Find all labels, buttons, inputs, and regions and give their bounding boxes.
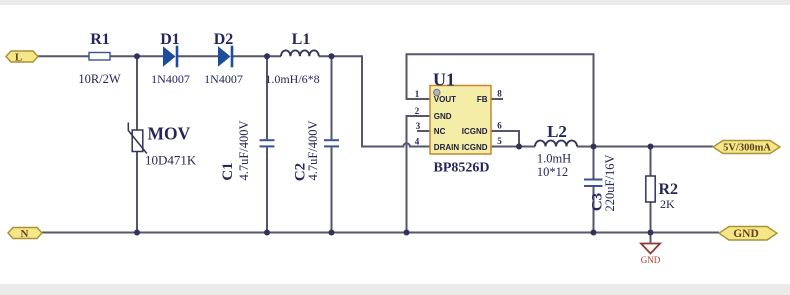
svg-text:BP8526D: BP8526D [434,161,490,176]
svg-text:VOUT: VOUT [434,95,456,104]
svg-text:10D471K: 10D471K [145,153,197,168]
svg-text:1.0mH: 1.0mH [537,152,571,166]
svg-text:L2: L2 [547,122,567,141]
svg-text:U1: U1 [433,70,455,90]
svg-text:MOV: MOV [148,124,191,144]
resistor R1 [78,31,121,86]
svg-text:8: 8 [497,89,502,99]
wire pin6 ICGND [491,131,519,147]
svg-text:1.0mH/6*8: 1.0mH/6*8 [265,72,319,86]
wire C1 branch [266,56,268,232]
svg-text:GND: GND [733,228,759,240]
inductor L2 [535,122,577,179]
wire C2 branch [331,56,333,232]
svg-text:GND: GND [434,112,452,121]
svg-text:DRAIN: DRAIN [434,143,460,152]
capacitor C1 [220,120,275,180]
capacitor C3 [584,155,617,212]
svg-text:6: 6 [497,121,502,131]
svg-text:R2: R2 [659,181,679,198]
svg-text:R1: R1 [90,31,110,48]
svg-text:ICGND: ICGND [462,127,488,136]
wire R2 branch [650,147,652,243]
svg-text:D2: D2 [214,31,234,48]
svg-text:3: 3 [416,121,421,131]
svg-text:5: 5 [497,136,502,146]
wire pin5 ICGND to L2 [491,146,535,148]
wire L2 to output flag [577,146,713,148]
svg-text:10*12: 10*12 [537,165,568,179]
connector flag L [6,51,38,64]
svg-text:1N4007: 1N4007 [151,72,190,86]
svg-text:L1: L1 [292,31,311,48]
connector flag 5V/300mA [713,141,780,154]
connector flag GND [719,227,777,241]
wire VOUT loop [407,54,594,146]
svg-text:2: 2 [415,106,420,116]
svg-text:220uF/16V: 220uF/16V [603,155,617,212]
svg-text:GND: GND [641,255,661,265]
svg-text:NC: NC [434,127,446,136]
svg-text:FB: FB [477,95,488,104]
svg-text:5V/300mA: 5V/300mA [723,143,771,154]
diode D1 [151,31,190,86]
ground symbol [641,244,661,266]
wire bottom rail N to GND [42,232,719,234]
svg-text:1: 1 [415,89,420,99]
wire D1 to D2 [178,55,218,57]
wire GND pin2 drop [407,116,431,233]
resistor R2 [646,176,678,211]
diode D2 [204,31,243,86]
wire C3 branch [593,147,595,233]
connector flag N [8,228,42,241]
svg-text:4: 4 [415,137,420,147]
svg-text:D1: D1 [160,31,180,48]
wire D2 to L1 [231,55,281,57]
wire top rail L to R1 [38,55,89,57]
svg-text:1N4007: 1N4007 [204,72,243,86]
wire FB pin8 stub [491,98,503,100]
svg-text:10R/2W: 10R/2W [78,72,121,86]
svg-text:2K: 2K [660,197,675,211]
wire R1 to D1 [110,55,163,57]
wire NC pin3 stub [417,130,430,132]
op-amp U1 BP8526D [415,70,503,176]
wire L1 to corner and down to DRAIN [319,56,430,146]
svg-text:4.7uF/400V: 4.7uF/400V [237,120,251,180]
svg-text:C1: C1 [220,162,236,180]
svg-text:L: L [15,52,22,64]
svg-text:ICGND: ICGND [462,143,488,152]
inductor L1 [265,31,319,86]
svg-text:N: N [21,228,29,240]
varistor MOV [128,123,197,168]
wire MOV branch [136,56,138,232]
capacitor C2 [293,120,340,181]
node junction dots [134,53,654,235]
svg-text:4.7uF/400V: 4.7uF/400V [306,120,320,180]
